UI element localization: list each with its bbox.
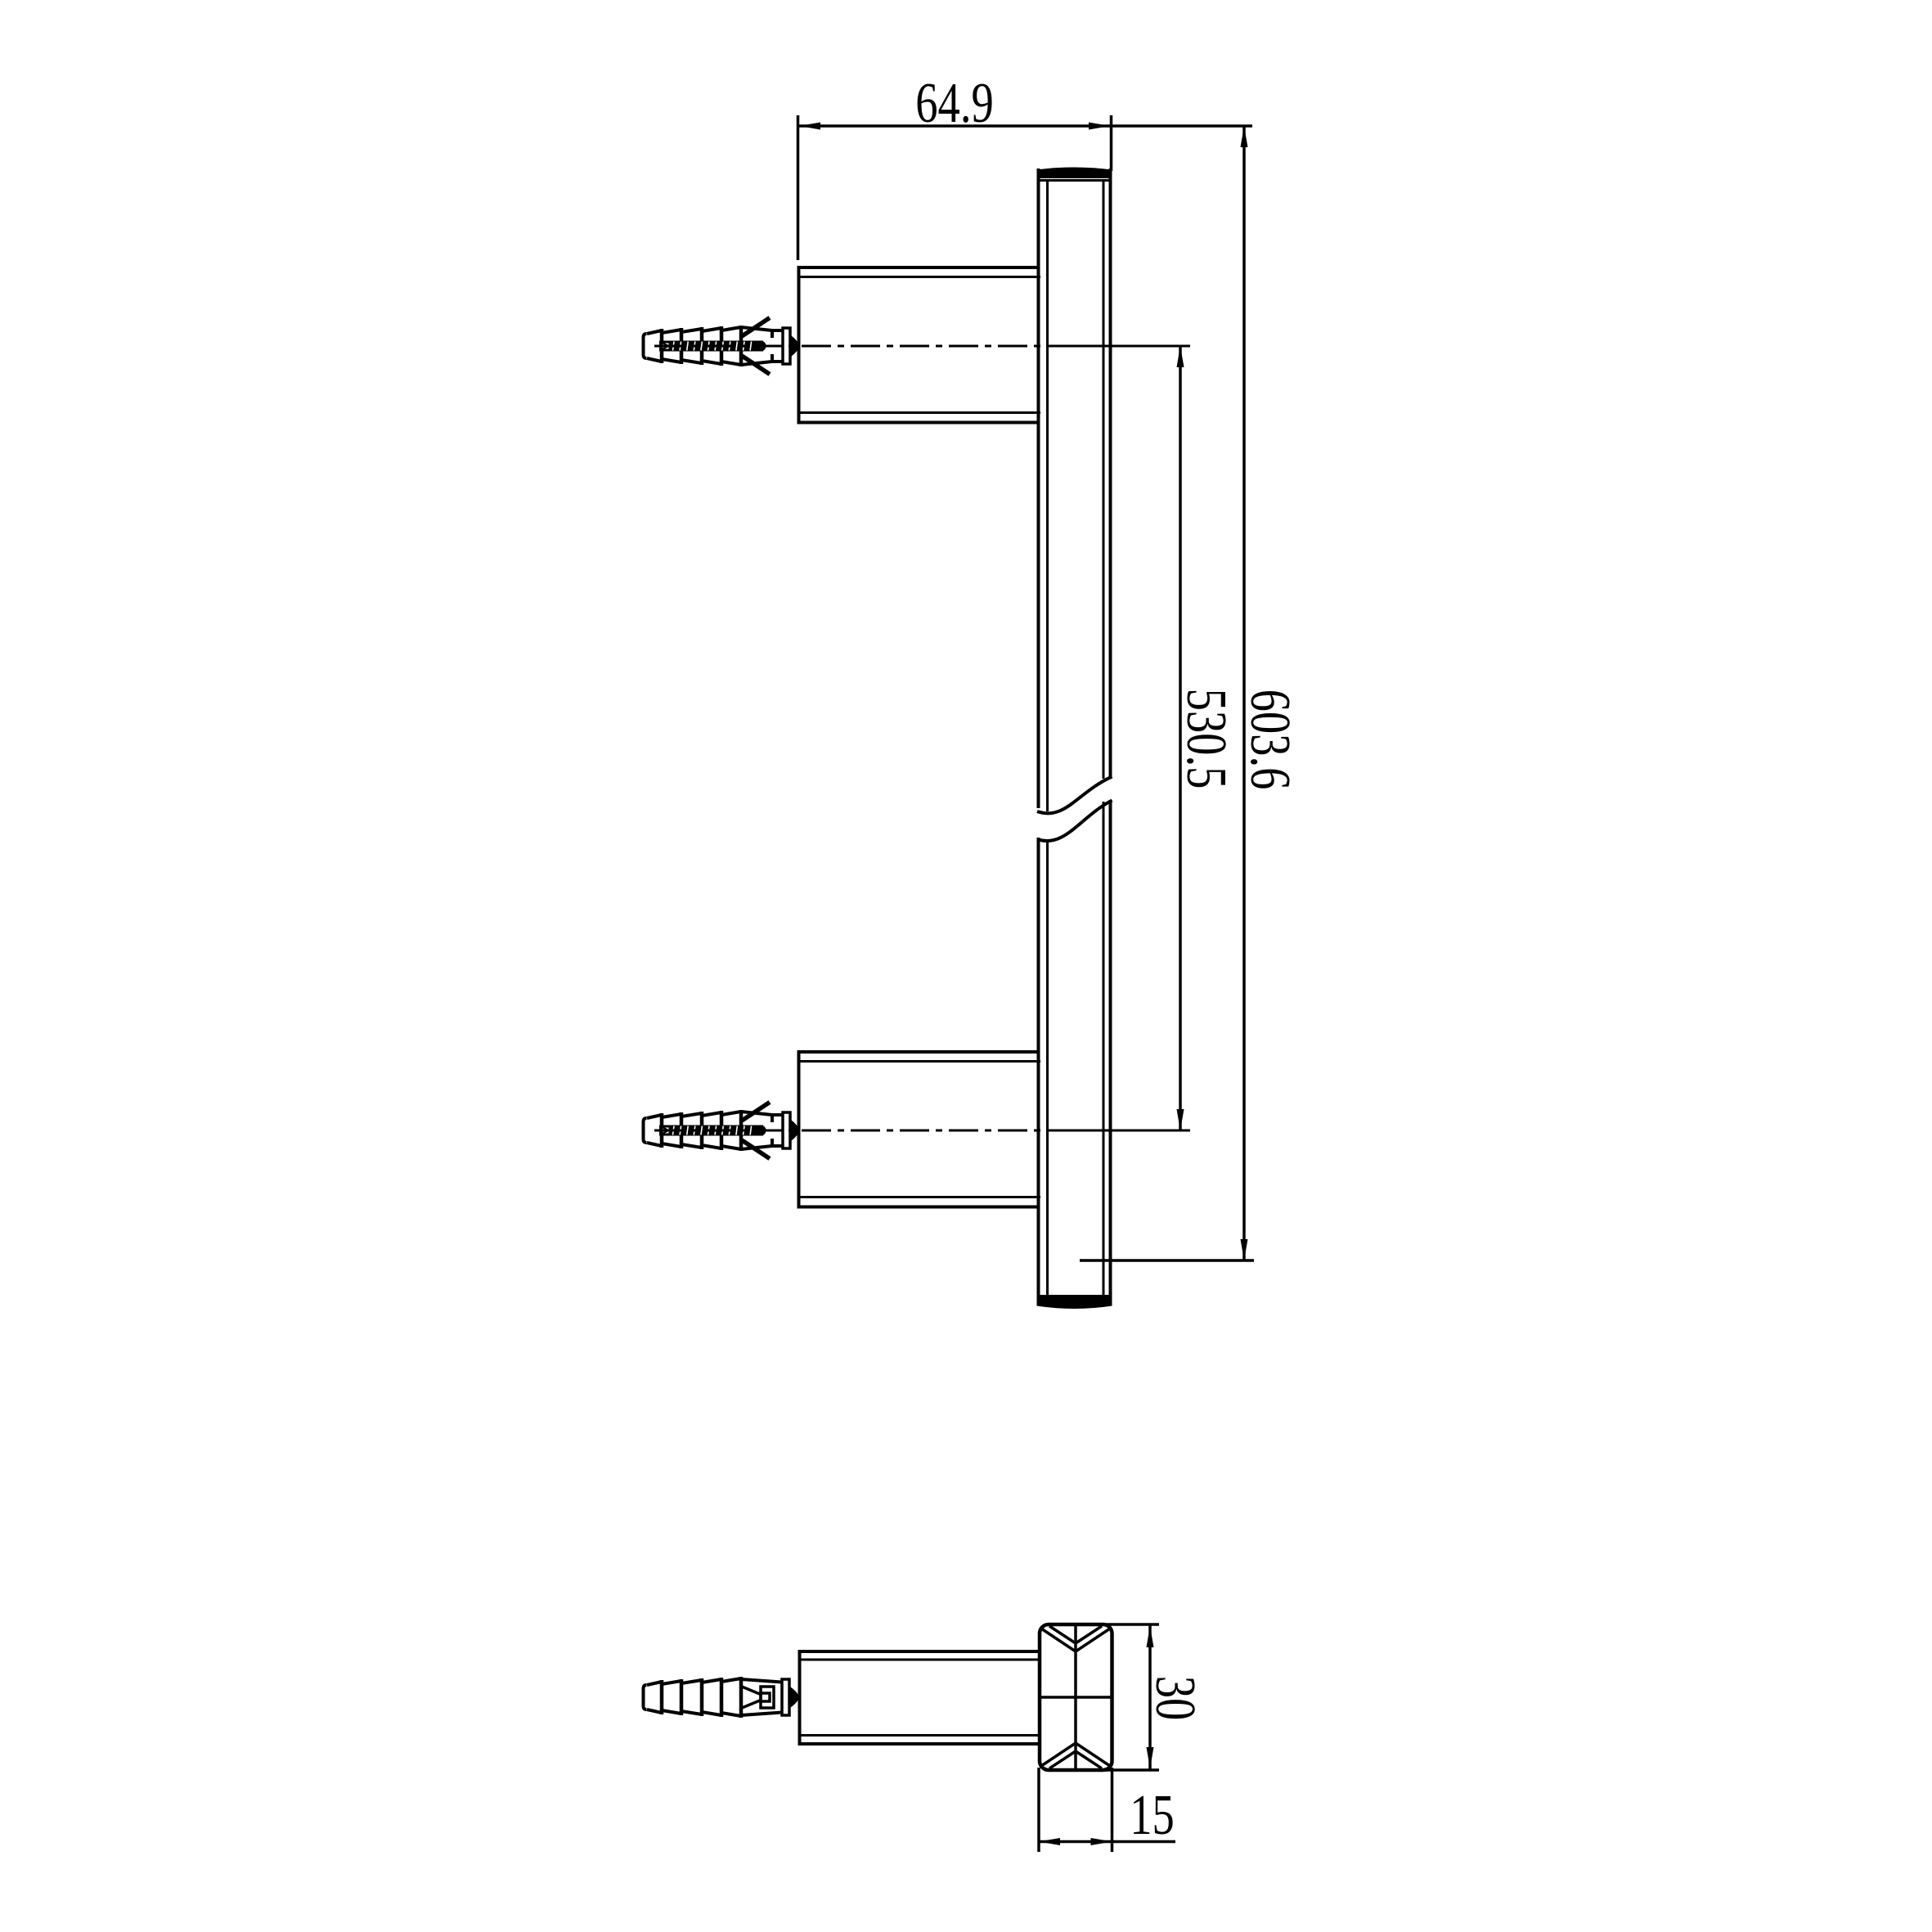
svg-text:64.9: 64.9 [915,71,994,135]
dimension text 64.9 [915,71,994,135]
handle bar lower piece: left inner line [1046,840,1049,1296]
bottom mounting post: left end cap [798,1050,801,1209]
top anchor screw, wings, head, washer [659,318,799,375]
top mounting post: top outer line [798,266,1039,269]
handle bar upper piece: left outer edge [1037,168,1040,808]
dimension line 30 (vertical) [1148,1624,1152,1770]
side-view screw sleeve with slotted head and washer [741,1679,799,1715]
break symbol upper S-curve [1037,777,1112,814]
top wall plug body [644,326,742,366]
left extension line of 64.9 [797,115,800,260]
left arrowhead of 64.9 [799,123,820,130]
svg-text:530.5: 530.5 [1175,689,1238,789]
bottom chevron outer [1041,1743,1110,1766]
handle bar lower piece: left outer edge [1037,838,1040,1305]
top mounting post: left end cap [798,266,801,425]
bottom anchor screw, wings, head, washer [659,1103,799,1159]
dimension 30: bottom extension line [1094,1768,1159,1772]
line above bottom cap [1038,1295,1111,1297]
dimension text 15 [1130,1783,1175,1847]
dimension line 15 [1039,1840,1175,1844]
dimension line 64.9 with right extension to 603.6 [799,124,1252,128]
cross-section horizontal middle line [1040,1696,1111,1699]
top chevron inner [1049,1626,1102,1643]
side-view post: top inner line [801,1659,1040,1661]
extension of top centerline to 530.5 dimension [1074,345,1190,348]
cross-section vertical center line [1074,1625,1077,1769]
bottom mounting post: top outer line [798,1050,1039,1054]
right arrowhead of 64.9 [1089,123,1110,130]
svg-text:603.6: 603.6 [1238,690,1302,790]
handle bar lower piece: right inner line [1103,802,1105,1296]
bottom arrowhead of 530.5 [1177,1109,1184,1130]
centerline through bottom post (dash-dot) [654,1130,1078,1132]
dimension line 603.6 (vertical) [1242,126,1246,1260]
top mounting post: top inner line [800,276,1040,278]
dimension 15: right extension line [1111,1768,1114,1852]
side-view wall plug body [644,1677,742,1718]
extension of bottom centerline to 530.5 dimension [1076,1130,1190,1132]
right extension line of 64.9 (to bar top) [1110,115,1113,171]
top chevron outer [1041,1629,1110,1651]
side-view post: left end cap [798,1650,802,1746]
bottom extension line of 603.6 [1080,1259,1254,1262]
top arrowhead of 530.5 [1177,346,1184,367]
dimension 15: left extension line [1037,1768,1040,1852]
right arrowhead of 15 [1091,1838,1112,1845]
side-view post: bottom outer line [799,1742,1040,1746]
bottom mounting post: top inner line [800,1060,1040,1063]
svg-text:15: 15 [1130,1783,1175,1847]
top mounting post: bottom outer line [798,421,1039,425]
bottom wall plug body [644,1110,742,1151]
bottom mounting post: bottom inner line [800,1196,1040,1198]
bottom chevron inner [1049,1751,1102,1768]
bottom mounting post: bottom outer line [798,1206,1039,1209]
top arrowhead of 30 [1147,1626,1154,1647]
break symbol lower S-curve [1037,801,1112,842]
dimension text 530.5 (rotated) [1175,689,1238,789]
bottom arrowhead of 603.6 [1241,1239,1248,1260]
svg-text:30: 30 [1143,1676,1207,1721]
dimension text 30 (rotated) [1143,1676,1207,1721]
dimension 30: top extension line [1094,1623,1159,1626]
top end cap (black) of handle bar [1037,168,1112,179]
side-view post: bottom inner line [801,1734,1040,1737]
top mounting post: bottom inner line [800,411,1040,414]
bottom end cap (black) of handle bar [1037,1297,1112,1310]
bottom arrowhead of 30 [1147,1747,1154,1768]
handle bar upper piece: right outer edge [1109,168,1112,777]
bar cross-section rounded square [1040,1624,1112,1770]
line under top cap [1038,179,1111,182]
centerline through top post (dash-dot) [654,345,1078,348]
handle bar upper piece: right inner line [1103,180,1105,779]
dimension line 530.5 (vertical) [1179,346,1182,1130]
top arrowhead of 603.6 [1241,126,1248,147]
dimension text 603.6 (rotated) [1238,690,1302,790]
left arrowhead of 15 [1039,1838,1060,1845]
side-view post: top outer line [799,1650,1040,1653]
handle bar upper piece: left inner line [1046,180,1049,811]
handle bar lower piece: right outer edge [1109,800,1112,1305]
